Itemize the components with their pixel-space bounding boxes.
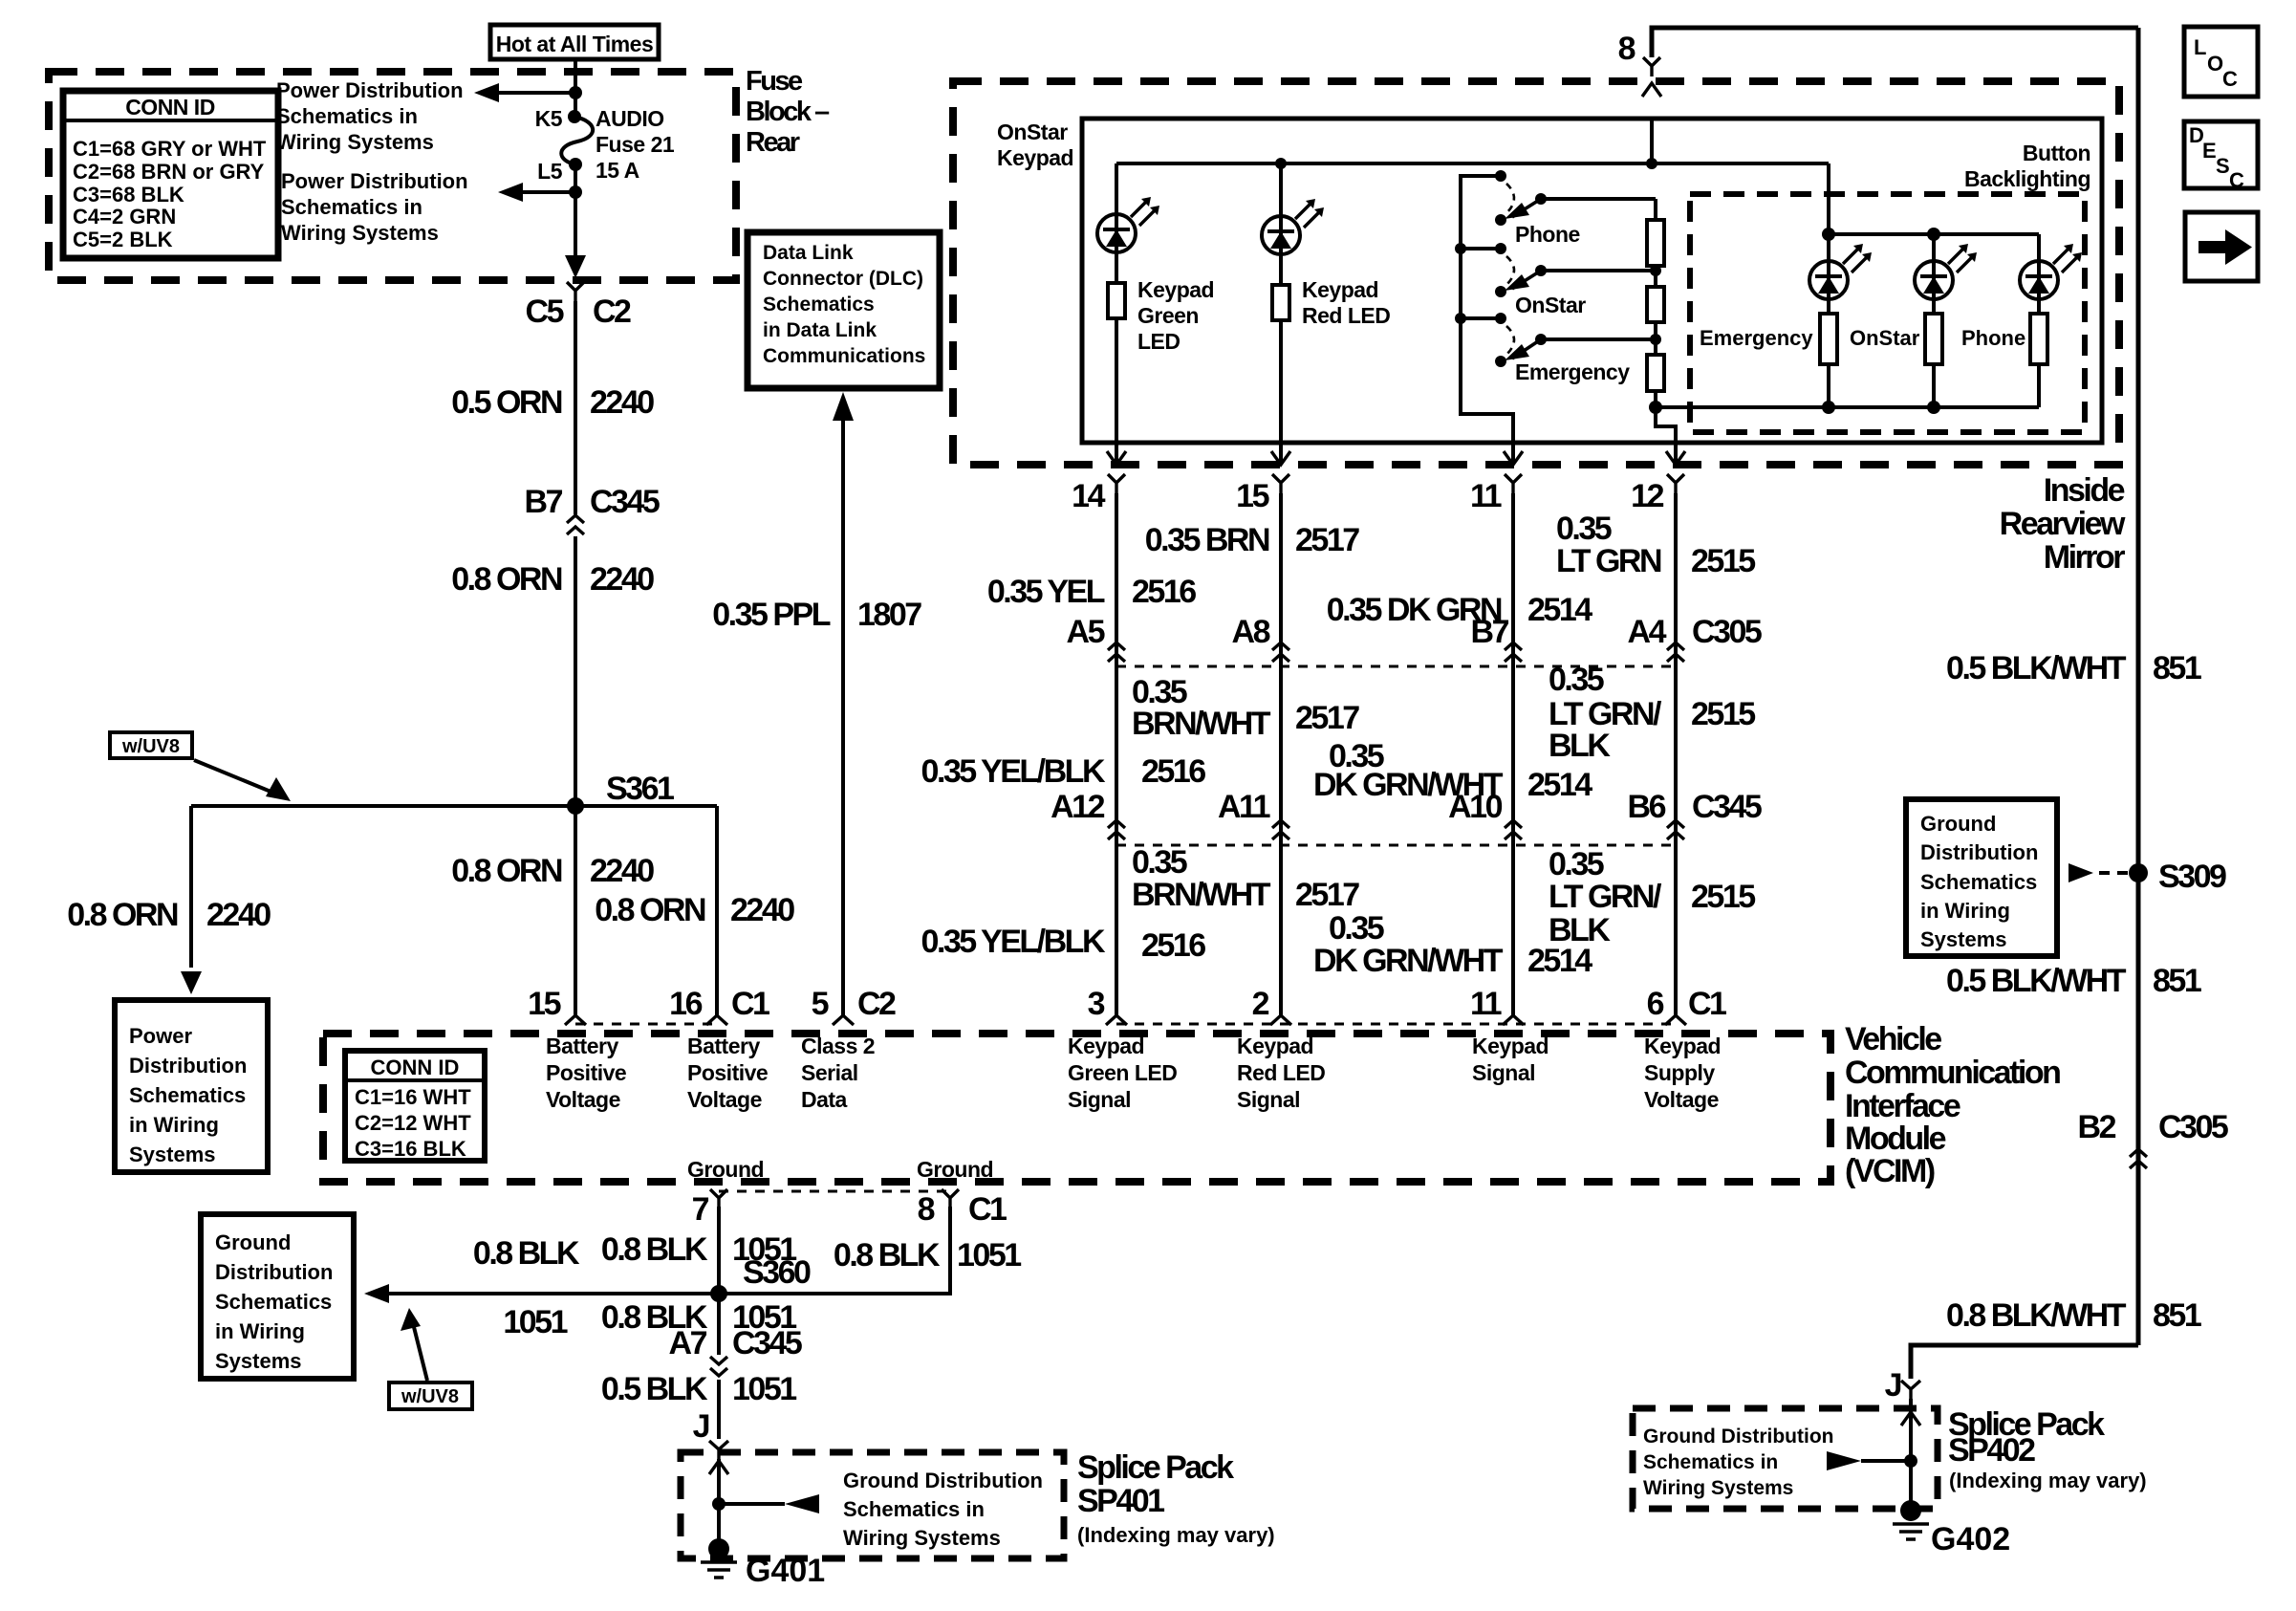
svg-text:Signal: Signal (1068, 1087, 1131, 1112)
svg-text:1051: 1051 (503, 1304, 567, 1340)
svg-text:Distribution: Distribution (215, 1260, 333, 1284)
svg-text:2514: 2514 (1527, 767, 1592, 803)
arrow to power distribution schematics 2 (498, 183, 523, 202)
wire to power distribution 1 (497, 91, 575, 95)
connector row C305 dashed tie (1116, 665, 1676, 668)
ground G402 (1900, 1500, 1921, 1521)
svg-text:Systems: Systems (129, 1143, 216, 1166)
data link connector DLC reference box (747, 232, 940, 388)
LED OnStar backlight (1915, 244, 1977, 299)
svg-text:B2: B2 (2078, 1109, 2116, 1145)
svg-text:0.5 BLK/WHT: 0.5 BLK/WHT (1946, 963, 2127, 999)
connector J SP402 (1901, 1381, 1920, 1399)
svg-text:in Wiring: in Wiring (215, 1319, 305, 1343)
svg-text:Schematics: Schematics (763, 294, 875, 316)
connector B7 C345 chevrons (567, 515, 584, 534)
svg-text:LT GRN: LT GRN (1556, 543, 1661, 579)
switch Phone (1495, 170, 1506, 182)
svg-text:C345: C345 (732, 1325, 802, 1361)
svg-text:Systems: Systems (1920, 927, 2007, 951)
node SP401 tap (712, 1497, 726, 1511)
svg-text:0.35 YEL: 0.35 YEL (987, 574, 1105, 610)
svg-text:2: 2 (1252, 986, 1269, 1022)
node switch bus emergency (1455, 313, 1466, 324)
wire fuse output (574, 164, 577, 268)
svg-text:Systems: Systems (215, 1349, 302, 1373)
power distribution schematics box (115, 1000, 268, 1172)
svg-text:A12: A12 (1051, 789, 1104, 825)
wire 0.8 BLK pin 7 (717, 1207, 721, 1294)
svg-text:Schematics: Schematics (1920, 870, 2037, 894)
svg-text:Voltage: Voltage (687, 1087, 762, 1112)
keypad resistor ladder (1654, 199, 1657, 220)
svg-text:C2: C2 (593, 294, 631, 330)
svg-text:OnStar: OnStar (1515, 293, 1586, 317)
svg-text:CONN ID: CONN ID (125, 95, 215, 120)
svg-text:A10: A10 (1448, 789, 1502, 825)
wire inside SP401 (717, 1459, 721, 1541)
arrow to ground distribution schematics left (364, 1284, 389, 1303)
svg-text:Inside: Inside (2044, 472, 2125, 509)
svg-text:Battery: Battery (687, 1034, 760, 1058)
svg-text:Ground: Ground (687, 1157, 764, 1182)
svg-text:S309: S309 (2158, 859, 2226, 895)
wire 0.8 BLK/WHT to SP402 (1911, 1345, 2138, 1379)
svg-text:2240: 2240 (590, 853, 654, 889)
svg-text:0.8 BLK: 0.8 BLK (473, 1235, 580, 1272)
connector row C345 chevron (1505, 820, 1522, 839)
svg-text:C1=68 GRY or WHT: C1=68 GRY or WHT (73, 137, 267, 161)
svg-text:14: 14 (1072, 478, 1105, 514)
svg-text:2514: 2514 (1527, 592, 1592, 628)
svg-text:CONN ID: CONN ID (371, 1056, 460, 1079)
svg-text:Vehicle: Vehicle (1845, 1021, 1941, 1057)
arrow up inside SP402 (1901, 1412, 1920, 1426)
svg-text:Fuse 21: Fuse 21 (596, 132, 675, 157)
backlight LED OnStar (1932, 234, 1936, 263)
svg-text:S360: S360 (743, 1254, 811, 1291)
button backlighting dashed outline (1690, 194, 2085, 432)
svg-text:B7: B7 (525, 484, 563, 520)
node pin 8 feed tap (1646, 158, 1657, 169)
svg-text:Backlighting: Backlighting (1964, 166, 2090, 191)
connector VCIM pin 8 (942, 1189, 959, 1208)
wire 0.8 ORN to pin 16 (715, 806, 719, 1015)
svg-text:A8: A8 (1232, 614, 1270, 650)
svg-text:Connector (DLC): Connector (DLC) (763, 268, 923, 290)
arrowhead w/UV8 2 (401, 1308, 421, 1331)
svg-text:2240: 2240 (730, 892, 794, 928)
svg-text:Ground: Ground (215, 1230, 291, 1254)
svg-text:Splice Pack: Splice Pack (1077, 1449, 1234, 1486)
svg-text:1051: 1051 (957, 1237, 1021, 1274)
wire inside SP402 (1909, 1399, 1913, 1502)
forward arrow icon box (2185, 212, 2258, 281)
svg-text:15 A: 15 A (596, 158, 639, 183)
connector row C305 chevron (1667, 642, 1684, 662)
svg-text:Schematics: Schematics (215, 1290, 332, 1314)
arrow line w/UV8 2 (412, 1319, 427, 1381)
connector row C345 chevron (1272, 820, 1289, 839)
DESC icon box (2184, 121, 2258, 188)
svg-text:Signal: Signal (1472, 1060, 1535, 1085)
svg-text:C305: C305 (2158, 1109, 2228, 1145)
svg-text:Serial: Serial (801, 1060, 858, 1085)
wire 0.8 ORN left branch (189, 806, 193, 968)
svg-text:Keypad: Keypad (997, 145, 1073, 170)
connector row C305 chevron (1505, 642, 1522, 662)
svg-text:S: S (2216, 154, 2230, 178)
svg-text:0.8 ORN: 0.8 ORN (595, 892, 705, 928)
wire 0.8 ORN to pin 15 (574, 806, 577, 1015)
LED Emergency backlight (1809, 244, 1872, 299)
connector pin 8 (1643, 57, 1660, 76)
svg-text:w/UV8: w/UV8 (401, 1386, 459, 1407)
wire onstar fixed contact (1461, 247, 1501, 250)
svg-text:Positive: Positive (546, 1060, 626, 1085)
svg-text:Distribution: Distribution (1920, 840, 2038, 864)
green LED symbol (1097, 197, 1159, 252)
svg-text:Supply: Supply (1644, 1060, 1715, 1085)
LED Phone backlight (2020, 244, 2082, 299)
svg-text:Keypad: Keypad (1068, 1034, 1144, 1058)
fuse block dashed outline (49, 72, 736, 280)
connector C1 dashed tie right (1116, 1023, 1676, 1026)
svg-text:L: L (2194, 35, 2206, 59)
node switch bus onstar (1455, 243, 1466, 254)
resistor Phone backlight (2030, 314, 2047, 364)
wire S361 horizontal (191, 804, 717, 808)
svg-text:A4: A4 (1628, 614, 1667, 650)
svg-text:C2=12 WHT: C2=12 WHT (355, 1111, 471, 1135)
node backlight LED2 tap (1927, 228, 1940, 241)
svg-text:BRN/WHT: BRN/WHT (1132, 706, 1271, 742)
CONN ID table (fuse block) (63, 91, 278, 258)
svg-text:A7: A7 (669, 1325, 707, 1361)
wire 851 top run (1652, 28, 2138, 57)
svg-text:S361: S361 (606, 771, 674, 807)
svg-text:0.35: 0.35 (1549, 662, 1604, 698)
OnStar keypad solid outline (1082, 119, 2102, 443)
svg-text:0.5 BLK/WHT: 0.5 BLK/WHT (1946, 650, 2127, 686)
svg-text:Power Distribution: Power Distribution (276, 78, 464, 102)
svg-text:Wiring Systems: Wiring Systems (281, 221, 439, 245)
ladder resistor 1 (1647, 220, 1664, 266)
svg-text:L5: L5 (537, 159, 563, 184)
svg-text:12: 12 (1631, 478, 1663, 514)
node ladder tap onstar (1650, 265, 1661, 276)
connector row C345 chevron (1108, 820, 1125, 839)
svg-text:Ground Distribution: Ground Distribution (1643, 1426, 1833, 1448)
red LED symbol (1262, 199, 1324, 254)
svg-text:0.35: 0.35 (1132, 844, 1187, 881)
wire SP401 stub (719, 1502, 785, 1506)
svg-text:O: O (2207, 52, 2223, 76)
svg-text:2240: 2240 (206, 897, 271, 933)
svg-text:LT GRN/: LT GRN/ (1549, 879, 1662, 915)
svg-text:AUDIO: AUDIO (596, 106, 664, 131)
svg-text:2516: 2516 (1141, 927, 1205, 964)
wire 0.8 ORN 2240 upper (574, 536, 577, 806)
arrow into power distribution box (181, 971, 202, 994)
svg-text:Data: Data (801, 1087, 848, 1112)
svg-text:1051: 1051 (732, 1371, 796, 1407)
svg-text:Power: Power (129, 1024, 192, 1048)
splice S309 (2129, 863, 2148, 882)
svg-text:Wiring Systems: Wiring Systems (1643, 1477, 1793, 1499)
wire pin 12 supply jog (1656, 407, 1676, 443)
keypad pin 14 exit (1115, 443, 1118, 463)
svg-text:Keypad: Keypad (1472, 1034, 1549, 1058)
svg-text:Emergency: Emergency (1515, 359, 1630, 384)
svg-text:C2=68 BRN or GRY: C2=68 BRN or GRY (73, 160, 265, 184)
svg-text:2515: 2515 (1691, 696, 1755, 732)
arrow up into DLC box (833, 392, 854, 421)
svg-text:C5=2 BLK: C5=2 BLK (73, 228, 173, 251)
svg-text:11: 11 (1470, 986, 1502, 1022)
wire SP402 stub (1861, 1459, 1911, 1463)
arrow up pin 8 crossing mirror box (1642, 83, 1661, 97)
resistor Emergency backlight (1820, 314, 1837, 364)
svg-text:Red LED: Red LED (1237, 1060, 1325, 1085)
svg-text:Voltage: Voltage (1644, 1087, 1719, 1112)
svg-text:G402: G402 (1931, 1521, 2010, 1557)
svg-text:C: C (2229, 168, 2244, 192)
svg-text:C1=16 WHT: C1=16 WHT (355, 1085, 471, 1109)
svg-text:DK GRN/WHT: DK GRN/WHT (1313, 943, 1504, 979)
svg-text:6: 6 (1647, 986, 1664, 1022)
wire to power distribution 2 (521, 190, 575, 194)
w/UV8 callout box 2 (389, 1382, 472, 1409)
arrow to ground distribution schematics SP402 (1827, 1451, 1861, 1470)
splice pack SP402 dashed outline (1633, 1408, 1938, 1509)
svg-text:851: 851 (2153, 963, 2201, 999)
svg-text:BLK: BLK (1549, 728, 1611, 764)
resistor red LED (1272, 285, 1289, 320)
svg-text:11: 11 (1470, 478, 1502, 514)
svg-text:Schematics in: Schematics in (276, 104, 418, 128)
switch OnStar (1495, 243, 1506, 254)
arrow line w/UV8 1 (194, 760, 280, 795)
svg-text:0.8 BLK: 0.8 BLK (601, 1231, 708, 1268)
ground distribution schematics box right (1906, 799, 2057, 956)
wire 0.5 BLK 1051 (717, 1380, 721, 1439)
wire 0.8 BLK pin 8 (719, 1207, 950, 1294)
backlight LED Phone (2037, 234, 2041, 263)
svg-text:w/UV8: w/UV8 (121, 736, 180, 757)
svg-text:15: 15 (1236, 478, 1268, 514)
connector VCIM pin 7 (710, 1189, 727, 1208)
svg-text:C5: C5 (526, 294, 564, 330)
node power distribution tap 1 (569, 86, 582, 99)
svg-text:A11: A11 (1218, 789, 1270, 825)
node ladder to backlight rail (1649, 401, 1662, 414)
ladder resistor 3 (1647, 355, 1664, 391)
svg-text:15: 15 (528, 986, 560, 1022)
svg-text:Mirror: Mirror (2044, 539, 2126, 576)
svg-text:OnStar: OnStar (1850, 326, 1920, 350)
svg-text:Red LED: Red LED (1302, 303, 1390, 328)
svg-text:in Wiring: in Wiring (129, 1113, 219, 1137)
svg-text:C2: C2 (857, 986, 896, 1022)
svg-text:Class 2: Class 2 (801, 1034, 875, 1058)
svg-text:Hot at All Times: Hot at All Times (496, 32, 654, 56)
wire 0.8 BLK below S360 (717, 1294, 721, 1355)
splice pack SP401 dashed outline (681, 1452, 1064, 1558)
svg-text:0.35: 0.35 (1549, 846, 1604, 882)
connector C5/C2 (567, 282, 584, 301)
wire backlighting top rail (1829, 232, 2039, 236)
svg-text:Green LED: Green LED (1068, 1060, 1177, 1085)
svg-text:C345: C345 (590, 484, 660, 520)
svg-text:0.8 ORN: 0.8 ORN (451, 561, 562, 598)
wire backlighting bottom rail (1656, 405, 2039, 409)
svg-text:2240: 2240 (590, 384, 654, 421)
svg-text:Distribution: Distribution (129, 1054, 247, 1078)
svg-text:5: 5 (812, 986, 829, 1022)
wire keypad supply bus (1116, 162, 1829, 165)
backlight LED Emergency (1827, 234, 1830, 263)
svg-text:Wiring Systems: Wiring Systems (276, 130, 434, 154)
node backlight LED1 tap (1822, 228, 1835, 241)
LOC icon box (2184, 27, 2258, 97)
svg-text:0.35 BRN: 0.35 BRN (1145, 522, 1269, 558)
svg-text:3: 3 (1088, 986, 1105, 1022)
keypad green LED branch (1115, 163, 1118, 214)
svg-text:in Wiring: in Wiring (1920, 899, 2010, 923)
Hot at All Times box (490, 25, 659, 59)
svg-text:2240: 2240 (590, 561, 654, 598)
svg-text:0.5 ORN: 0.5 ORN (451, 384, 562, 421)
svg-text:Ground: Ground (917, 1157, 993, 1182)
svg-text:Fuse: Fuse (746, 66, 803, 97)
arrow to S309 (2069, 863, 2093, 882)
svg-text:0.35 YEL/BLK: 0.35 YEL/BLK (921, 753, 1106, 790)
svg-text:Schematics in: Schematics in (1643, 1451, 1778, 1473)
keypad red LED branch (1279, 163, 1283, 216)
svg-text:J: J (693, 1408, 709, 1445)
connector row C345 dashed tie (1116, 844, 1676, 847)
svg-text:B7: B7 (1471, 614, 1509, 650)
svg-text:Keypad: Keypad (1302, 277, 1378, 302)
svg-text:Rear: Rear (746, 127, 800, 158)
svg-text:Ground Distribution: Ground Distribution (843, 1469, 1043, 1492)
svg-text:2516: 2516 (1141, 753, 1205, 790)
svg-text:0.5 BLK: 0.5 BLK (601, 1371, 708, 1407)
svg-text:Phone: Phone (1515, 222, 1580, 247)
fuse AUDIO Fuse 21 15A symbol (561, 117, 593, 164)
ground G401 (708, 1538, 729, 1559)
svg-text:C4=2 GRN: C4=2 GRN (73, 205, 176, 229)
arrow to power distribution schematics 1 (474, 83, 499, 102)
svg-text:K5: K5 (535, 106, 563, 131)
svg-text:0.35 YEL/BLK: 0.35 YEL/BLK (921, 924, 1106, 960)
keypad pin 15 exit (1279, 443, 1283, 463)
svg-text:Button: Button (2023, 141, 2090, 165)
svg-text:2517: 2517 (1295, 877, 1359, 913)
svg-text:BRN/WHT: BRN/WHT (1132, 877, 1271, 913)
node red LED tap (1275, 158, 1287, 169)
resistor green LED (1108, 283, 1125, 318)
svg-text:B6: B6 (1628, 789, 1666, 825)
svg-text:Emergency: Emergency (1700, 326, 1813, 350)
dashed stub to S309 (2099, 871, 2128, 875)
svg-text:0.8 ORN: 0.8 ORN (67, 897, 178, 933)
svg-text:E: E (2202, 139, 2217, 163)
w/UV8 callout box 1 (110, 732, 192, 758)
wire backlighting feed riser (1827, 163, 1830, 234)
connector row C345 chevron (1667, 820, 1684, 839)
svg-text:OnStar: OnStar (997, 120, 1068, 144)
svg-text:Rearview: Rearview (2000, 506, 2126, 542)
svg-text:Schematics in: Schematics in (843, 1497, 985, 1521)
ground distribution schematics box left (201, 1214, 354, 1379)
svg-text:7: 7 (692, 1191, 709, 1228)
connector row C305 chevron (1108, 642, 1125, 662)
svg-text:(Indexing may vary): (Indexing may vary) (1077, 1523, 1275, 1547)
svg-text:851: 851 (2153, 1297, 2201, 1334)
arrow up inside SP401 (709, 1461, 728, 1474)
svg-text:Interface: Interface (1845, 1088, 1960, 1124)
wire 0.5 BLK/WHT right run lower (2136, 873, 2141, 1345)
arrowhead w/UV8 1 (266, 777, 291, 801)
svg-text:SP401: SP401 (1077, 1483, 1164, 1519)
svg-text:in Data Link: in Data Link (763, 319, 877, 341)
svg-text:C3=16 BLK: C3=16 BLK (355, 1137, 466, 1161)
svg-text:2517: 2517 (1295, 700, 1359, 736)
svg-text:8: 8 (918, 1191, 935, 1228)
svg-text:Schematics in: Schematics in (281, 195, 422, 219)
wire hot-at-all-times feed (574, 59, 577, 117)
arrow to ground distribution schematics SP401 (785, 1494, 819, 1513)
svg-text:Phone: Phone (1961, 326, 2025, 350)
svg-text:C1: C1 (731, 986, 769, 1022)
node ladder tap emergency (1650, 334, 1661, 345)
svg-text:Wiring Systems: Wiring Systems (843, 1526, 1001, 1550)
wire 0.35 PPL 1807 class 2 serial data (841, 419, 845, 1015)
VCIM dashed outline (323, 1034, 1830, 1182)
node SP402 tap (1904, 1454, 1917, 1468)
svg-text:0.35 PPL: 0.35 PPL (712, 597, 830, 633)
svg-text:Green: Green (1137, 303, 1199, 328)
svg-text:16: 16 (669, 986, 702, 1022)
svg-text:Positive: Positive (687, 1060, 768, 1085)
connector C1 ground dashed tie (719, 1190, 950, 1193)
svg-text:2516: 2516 (1132, 574, 1196, 610)
wire emergency fixed contact (1461, 316, 1501, 320)
switch Emergency (1495, 313, 1506, 324)
node power distribution tap 2 (569, 185, 582, 199)
keypad pin 11 exit (1511, 443, 1515, 463)
svg-text:Signal: Signal (1237, 1087, 1300, 1112)
svg-text:0.35: 0.35 (1556, 511, 1612, 547)
svg-text:Data Link: Data Link (763, 242, 854, 264)
wire 0.8 BLK to ground distribution (387, 1292, 719, 1295)
svg-text:BLK: BLK (1549, 912, 1611, 948)
svg-text:0.35: 0.35 (1329, 910, 1384, 947)
svg-text:0.8 BLK: 0.8 BLK (834, 1237, 941, 1274)
fuse terminal L5 (569, 158, 582, 171)
svg-text:Communications: Communications (763, 345, 925, 367)
svg-text:Keypad: Keypad (1644, 1034, 1721, 1058)
resistor OnStar backlight (1925, 314, 1942, 364)
svg-text:J: J (1885, 1367, 1901, 1404)
svg-text:Block –: Block – (746, 97, 830, 127)
connector J SP401 (709, 1441, 728, 1459)
svg-text:Battery: Battery (546, 1034, 618, 1058)
svg-text:C345: C345 (1692, 789, 1762, 825)
svg-text:851: 851 (2153, 650, 2201, 686)
